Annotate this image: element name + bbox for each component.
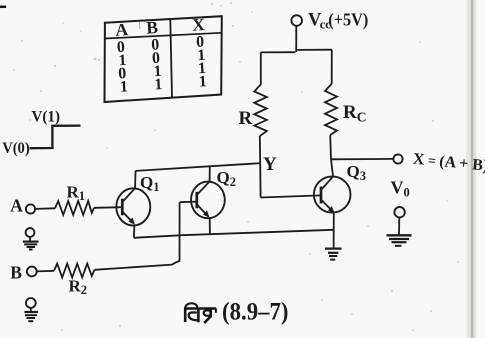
wire Q1 collector xyxy=(134,171,136,189)
svg-text:X: X xyxy=(192,14,206,35)
wire Y to Q3 base xyxy=(261,195,322,197)
wire Q2 emitter xyxy=(209,217,211,234)
svg-text:(8.9–7): (8.9–7) xyxy=(222,299,289,326)
transistor Q1 xyxy=(116,188,150,225)
terminal V0 xyxy=(394,207,404,217)
transistor Q2 xyxy=(191,182,225,219)
wire Vcc rail xyxy=(261,50,332,53)
terminal A xyxy=(26,204,35,213)
wire Q3 emitter to ground xyxy=(333,213,335,248)
page spine shading right xyxy=(467,0,477,338)
svg-text:V(0): V(0) xyxy=(2,140,30,157)
table column A values xyxy=(116,39,128,96)
transistor Q3 xyxy=(314,176,351,213)
svg-text:1: 1 xyxy=(119,78,128,95)
ground B xyxy=(25,298,39,321)
resistor R xyxy=(254,84,266,136)
caption Devanagari chitra xyxy=(184,303,216,323)
svg-text:R: R xyxy=(239,108,253,129)
wire collector rail Q1 Q2 to Y xyxy=(136,163,261,171)
wire emitter rail xyxy=(134,230,333,238)
wire Y down to Q3 base level xyxy=(259,163,261,197)
table column B values xyxy=(151,36,163,93)
wire R to node Y xyxy=(259,136,261,163)
wire RC to output node xyxy=(329,135,332,159)
output terminal X xyxy=(393,154,402,163)
wire R1 to Q1 base xyxy=(94,206,122,209)
wire A to R1 xyxy=(35,207,55,210)
resistor R1 xyxy=(55,201,94,215)
wire R2 to Q2 base riser xyxy=(95,202,180,270)
svg-text:B: B xyxy=(146,17,159,38)
wire V0 stem xyxy=(398,218,400,235)
label Vcc(+5V) xyxy=(308,9,368,31)
ground V0 xyxy=(387,235,412,246)
svg-text:1: 1 xyxy=(198,73,207,90)
waveform step V(0) to V(1) xyxy=(30,126,81,149)
wire output node to Q3 collector xyxy=(331,159,333,176)
ground Q3 xyxy=(325,249,342,260)
table faint A|B divider stub xyxy=(139,21,141,29)
wire Vcc stem xyxy=(295,26,297,52)
wire B to R2 xyxy=(37,270,54,273)
table column X values xyxy=(196,34,207,91)
page edge mark top-left xyxy=(0,6,6,9)
ground A xyxy=(23,228,39,249)
resistor R2 xyxy=(54,264,95,278)
svg-text:A: A xyxy=(115,19,129,40)
wire riser to Q2 base xyxy=(180,201,197,204)
wire Q2 collector xyxy=(209,166,211,182)
Vcc terminal xyxy=(291,15,302,26)
wire output node to X terminal xyxy=(331,158,393,160)
wire rail to R xyxy=(260,52,262,84)
svg-text:1: 1 xyxy=(154,76,163,93)
wire rail to RC xyxy=(331,50,333,84)
table column divider B|X xyxy=(170,19,172,98)
truth table xyxy=(105,16,222,102)
terminal B xyxy=(27,267,37,277)
resistor RC xyxy=(325,84,337,135)
svg-text:B: B xyxy=(10,262,22,282)
table header underline xyxy=(105,33,222,39)
svg-text:Y: Y xyxy=(263,154,277,175)
svg-text:(+5V): (+5V) xyxy=(328,9,368,29)
svg-text:A: A xyxy=(10,196,23,216)
table outer box xyxy=(105,16,222,102)
wire Q1 emitter xyxy=(133,225,136,238)
svg-text:V(1): V(1) xyxy=(32,108,61,125)
